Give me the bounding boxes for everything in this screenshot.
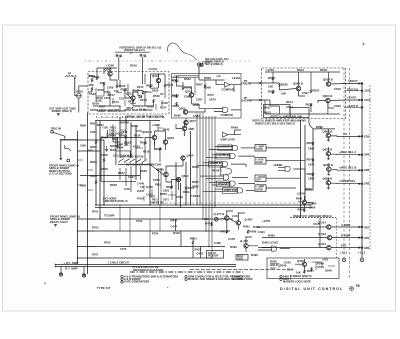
svg-text:R466: R466 [298,208,305,212]
svg-text:B501: B501 [76,90,83,94]
svg-text:R655: R655 [166,185,173,189]
and gate G5 [224,175,229,180]
node: dashed separator with text [290,217,336,219]
svg-text:DELAY: DELAY [208,252,216,255]
ground: rail gnd 2 [360,258,364,262]
svg-text:R661: R661 [316,125,323,129]
resistor R593 [279,83,281,87]
resistor R478 [226,230,228,234]
svg-text:R686: R686 [307,172,314,176]
transistor Q577 [184,120,188,124]
wire: bus y207.5 [95,207,312,209]
wire: -RT sweep out y266.5 [56,266,237,268]
node: bus area labels [92,210,99,214]
svg-text:+225V: +225V [297,192,305,196]
svg-text:R641: R641 [140,141,147,145]
wire: box2 top rail [172,78,206,105]
svg-text:R493: R493 [230,245,237,249]
wire: G1 output [241,147,255,149]
transistor Q497 [244,244,248,248]
wire: G5 output [232,176,248,178]
svg-text:R648: R648 [231,126,238,130]
wire: trig diagonal [53,132,77,139]
wire: right rail x362 [361,83,363,258]
wire: bus y231 [78,230,231,232]
svg-text:GATE: GATE [256,148,263,151]
node: sweep mag switch arrows [119,159,147,163]
svg-text:R581: R581 [173,104,180,108]
wire: Q624 output GATE [330,99,360,101]
resistor R565 [176,94,178,98]
wire: input arrow upper [248,82,262,84]
wire: box2 internal rails [172,80,215,109]
node: junction dot [60,139,61,140]
svg-text:Q-534: Q-534 [318,242,326,246]
svg-text:D549: D549 [325,269,332,273]
svg-text:+225V: +225V [266,68,274,72]
node: right upper extra labels [308,147,315,151]
svg-text:+225V: +225V [106,64,114,68]
svg-text:R447: R447 [171,219,178,223]
svg-text:+NORM SEL: +NORM SEL [339,179,356,183]
node: bottom mid cable labels [108,262,130,265]
svg-text:R526: R526 [153,94,160,98]
svg-text:+225: +225 [173,75,180,79]
wire: cal horizontal y150.9 [116,151,130,158]
wire: box3 drop to logic [309,119,313,129]
svg-text:+12.2: +12.2 [358,251,366,255]
ground: note gnd [54,225,57,227]
svg-text:C616: C616 [334,87,341,91]
svg-text:+GATE: +GATE [347,96,356,100]
wire: lamp feed [75,86,88,96]
svg-text:R496: R496 [251,253,258,257]
wire: box1 extra verticals [110,74,165,106]
wire: Q524 output B SWP [332,237,361,239]
svg-text:R451: R451 [190,237,197,241]
node: sawtooth label [107,132,124,135]
wire: TP570 stem [198,66,200,74]
wire: Q513 base net [125,90,143,106]
node: labels in box3 [286,100,293,104]
resistor R504 [103,82,105,86]
transistor Q653 [163,140,167,144]
wire: horiz y120 [95,120,160,122]
transistor Q654 [176,177,180,181]
wire: comparator output [230,85,241,92]
svg-text:LEVEL: LEVEL [232,76,241,80]
svg-text:B SWP: B SWP [341,233,350,237]
svg-text:3R2: 3R2 [364,225,370,229]
node: legend row 2 right [185,277,243,281]
node: mid-left extra labels [110,144,119,148]
svg-text:OFF: OFF [270,267,276,271]
svg-text:+GATE: +GATE [148,67,157,71]
node: trig connector [51,131,54,134]
wire: switch common dashed bus [84,60,252,62]
svg-text:R517: R517 [108,93,115,97]
svg-text:C659: C659 [176,195,183,199]
transistor Q645 [164,172,168,176]
svg-text:R565: R565 [172,94,179,98]
wire: logic bus x212 [211,116,213,258]
resistor R581 [176,102,178,106]
node: Q464 aux labels [296,197,303,201]
svg-text:Q-645: Q-645 [156,168,164,172]
wire: supply stub [107,130,109,138]
node: front panel row label [90,109,153,112]
svg-text:J102: J102 [364,89,371,93]
ground: output gnd 2 [82,274,85,277]
svg-text:RESET: RESET [212,169,222,173]
node: mid labels between buses [136,219,143,223]
svg-text:(SWEEP SELECT): (SWEEP SELECT) [124,49,145,52]
node: box2 mid labels [196,83,203,87]
wire: G3 output [231,164,246,167]
transistor Q664B [326,133,330,137]
svg-text:Q674 B: Q674 B [323,148,333,152]
wire: bus y258 [78,257,214,259]
svg-text:R696: R696 [305,187,312,191]
transistor Q487 [236,221,240,225]
resistor R528 [153,99,155,103]
wire: Q643 nets [145,131,166,150]
svg-text:Q654: Q654 [182,174,189,178]
resistor R502 [96,76,98,80]
svg-text:R495: R495 [268,234,275,238]
wire: logic bus x209 [208,116,210,247]
svg-text:Q-497: Q-497 [240,239,248,243]
node: buffer out label [231,126,238,130]
wire: extra verticals x158-161 [159,168,162,205]
transistor Q674B [326,152,330,156]
test point TP2 pair right [140,54,142,56]
node: legend right col extension [232,274,250,278]
svg-text:R596: R596 [80,125,86,128]
svg-text:C671: C671 [163,199,169,202]
wire: box4 internal wires [270,262,335,270]
resistor R506 [116,84,118,88]
wire: vertical x77.5 [77,131,79,265]
wire: logic bus x206 [205,116,207,231]
svg-text:R633: R633 [131,124,138,128]
svg-text:C655: C655 [153,178,160,182]
wire: label stack stubs [144,185,152,201]
resistor R503 [91,78,93,82]
resistor R655 [171,185,173,189]
svg-text:10 11 12 13 14 15: 10 11 12 13 14 15 [113,155,133,158]
svg-text:2.2K: 2.2K [232,214,239,218]
wire: vertical x176 [175,162,177,205]
node: legend row 2 left [121,277,141,281]
svg-text:+GATE A: +GATE A [65,74,77,78]
svg-text:1 CABLE CIRCUIT: 1 CABLE CIRCUIT [108,262,130,265]
wire: sweep line from gates to right col [305,169,313,190]
wire: top-right corner stub [345,83,347,85]
node: gate label boxes [218,145,232,151]
node: holdoff note [205,58,229,61]
wire: right rail x344 dashed [343,68,345,258]
node: right terminal tags lower [364,225,370,229]
svg-text:Q513: Q513 [126,92,133,96]
sweep generator box (dashed) [88,72,169,115]
svg-text:R645: R645 [155,147,162,151]
node: swp cal label [117,143,130,147]
resistor R597 [310,89,312,93]
resistor R522 [150,84,152,88]
svg-text:TO A & B SWP CKT BD: TO A & B SWP CKT BD [132,266,159,269]
svg-text:MAG: MAG [110,148,117,152]
wire: switch row feed [118,165,163,175]
wire: vertical x136 [135,125,137,180]
node: box4 labels right [317,262,324,266]
node: box3 bottom rail [265,113,340,115]
resistor R531 [91,87,93,91]
svg-text:R561: R561 [172,79,179,83]
transistor Q614 [326,82,330,86]
svg-text:R608: R608 [90,160,97,164]
resistor R676 [312,158,314,162]
svg-text:COMPAR: COMPAR [222,88,234,92]
resistor R561 [176,79,178,83]
node: switch contact dots [118,161,142,163]
resistor R524 [164,84,166,88]
wire: horiz y175 [80,174,140,176]
wire: vertical x100 [99,121,101,219]
svg-text:NORM: NORM [120,121,129,125]
transistor Q663 [182,126,186,130]
svg-text:R676: R676 [307,158,314,162]
node: box3 extra labels [266,68,274,72]
sweep holdoff box [267,258,339,279]
wire: box1 lower nets [93,92,154,110]
wire: Q694 emitter [327,185,330,190]
svg-text:Q593 B: Q593 B [293,82,303,86]
resistor R595 [272,90,274,94]
svg-text:R488: R488 [250,230,257,234]
svg-text:Q653: Q653 [167,136,174,140]
svg-text:D492 LEVEL: D492 LEVEL [262,241,279,245]
wire: output box feeds [266,148,305,188]
wire: vertical x305 [304,125,306,202]
svg-text:R595: R595 [268,90,275,94]
ground: under ext label [57,114,60,116]
transistor Q477 [225,216,229,220]
wire: vertical x131 [130,122,132,158]
svg-text:OFF: OFF [256,179,261,182]
node: feed label [316,125,323,129]
node: left terminal dots [55,264,57,266]
resistor R548 [311,267,313,271]
svg-text:Q-487: Q-487 [245,218,253,222]
svg-text:EXT: EXT [341,243,347,247]
svg-text:C447: C447 [171,225,178,229]
svg-text:+MAG SEL B: +MAG SEL B [339,166,356,170]
wire: box1 left stubs [88,72,142,93]
wire: rail crossing ticks upper [344,91,362,108]
resistor R608 [95,180,97,184]
node: box1 extra labels [106,64,114,68]
wire: logic bus x215 [214,116,216,196]
node: bottom row labels mid-left [152,199,158,202]
node: circled contact [67,159,70,162]
svg-text:R614: R614 [286,100,293,104]
wire: Q674 emitter [327,156,330,160]
wire: vertical x186 [185,162,187,205]
node: right rail terminal circles 2 [361,90,363,109]
resistor R514 [142,91,144,95]
wire: Q624 base [262,100,335,112]
svg-text:R639: R639 [140,169,147,173]
wire: vertical x180.5 [180,183,182,208]
svg-text:R667: R667 [192,180,199,184]
wire: cal vertical x115.9 [115,137,117,165]
wire: comparator input nets [177,74,225,93]
test point TP570 [197,63,200,66]
wire: Q503 emitter [104,76,117,92]
svg-text:R637: R637 [118,171,125,175]
node: right bus labels [171,219,178,223]
wire: bracket under label [115,52,150,54]
wire: bus vertical links [120,205,160,258]
wire: Q503 collector [97,68,117,76]
node: gate output box 4 [255,185,266,192]
svg-text:VERTICAL (SWEEP) AMPLIFIER UN: VERTICAL (SWEEP) AMPLIFIER UNBLANKING [252,119,306,122]
svg-text:C532: C532 [89,92,96,96]
svg-text:Q583: Q583 [179,107,186,111]
svg-text:R449: R449 [173,231,180,235]
svg-text:Q-524: Q-524 [318,232,326,236]
transistor Q643 [152,135,156,139]
svg-text:R547: R547 [307,269,314,273]
node: HORIZONTAL DISPLAY switch label [120,47,162,50]
transistor Q523 [156,78,160,82]
svg-text:2R4: 2R4 [364,153,370,157]
wire: coax cable squiggle to holdoff [168,43,197,60]
wire: TP1 drop [118,57,120,72]
resistor R657 [185,186,187,190]
and gate G7 [238,188,243,193]
svg-text:R621: R621 [306,103,313,107]
node: input label GATE [244,96,248,100]
svg-text:D608: D608 [101,167,108,171]
wire: bus tick stubs [88,219,96,258]
resistor R591 [272,77,274,81]
transistor Q684B [327,167,331,171]
wire: horiz y140 [61,139,104,141]
wire: dashed vertical x336.5 [336,218,338,258]
wire: Q464 stubs [298,201,313,205]
svg-text:+INHIB: +INHIB [273,163,282,167]
node: misc box1 labels [96,96,103,100]
svg-text:R591: R591 [268,76,275,80]
resistor R666 [312,142,314,146]
svg-text:+ R.T. SWP: + R.T. SWP [64,261,79,265]
wire: Q684 output [329,163,361,171]
svg-text:+12.2: +12.2 [340,251,348,255]
svg-text:Q624 B: Q624 B [323,94,333,98]
relay box B [290,108,309,118]
svg-text:C545: C545 [284,261,291,265]
and gate G1 [233,145,238,150]
svg-text:1 — 2 — 3 — 4 — 5 — 6 — 7 — 8: 1 — 2 — 3 — 4 — 5 — 6 — 7 — 8 — 9 — 10 —… [96,116,165,119]
node: ext trig label [50,107,76,111]
transistor Q464 [302,200,306,204]
svg-text:R638: R638 [110,183,117,187]
node: box1 labels third pass [107,86,114,90]
node: +RT SWP label [64,261,79,265]
wire: bus y205 [95,204,312,206]
wire: upper nets [113,125,142,146]
node: labels in box2 [204,76,211,80]
wire: horiz y151 [78,150,100,152]
wire: G2 output [238,155,255,157]
node: lower-mid label stack [137,182,145,186]
comparator box (solid) [172,74,242,119]
svg-text:+MAG SEL A: +MAG SEL A [339,150,356,154]
svg-text:R601: R601 [90,122,97,126]
wire: lamp drop [78,98,80,112]
node: gate output box 1 [255,145,266,152]
node: left-edge tiny labels [80,125,86,128]
svg-text:C549: C549 [317,265,324,269]
node: delay pickoff boxed label 1 [207,251,224,259]
wire: Q523 nets [151,74,166,88]
resistor R686 [312,173,314,177]
and gate G3 [223,162,228,167]
transistor Q513 [131,96,135,100]
transistor Q524 lower [327,235,331,239]
svg-text:R671: R671 [152,199,158,202]
node: box2 left rail labels [173,75,180,79]
and gate G8 [285,166,290,171]
wire: Q614 output TRIG'D [331,83,361,85]
svg-text:C583: C583 [193,114,200,118]
svg-text:C601: C601 [90,130,97,134]
wire: G8 nets [278,168,305,171]
node: ext horiz label [103,197,117,201]
node: -RT SWP label [64,267,78,271]
node: mag switch label [120,155,144,159]
svg-text:R510: R510 [130,64,137,68]
wire: box1 stubs third pass [108,89,162,110]
wire: left-edge stubs [78,140,94,190]
svg-text:VERTICAL AMPL UNBLANK: VERTICAL AMPL UNBLANK [270,116,303,119]
node: mid-bottom junction dots [226,210,258,237]
svg-text:R569: R569 [204,76,211,80]
wire: vertical x96 [95,121,97,205]
svg-text:SWP MAG SEC A (TIMING SW): SWP MAG SEC A (TIMING SW) [126,163,161,166]
transistor Q534 lower [327,245,331,249]
node: legend row 1 left [121,274,179,278]
wire: right rail x370 dashed [369,85,371,250]
svg-text:1R2: 1R2 [364,134,370,138]
resistor R512 [124,88,126,92]
node: terminal circles right rail [361,83,363,249]
resistor R488 [247,230,249,234]
svg-text:+225V: +225V [262,219,270,223]
node: bus junction dots left rail [77,204,213,265]
svg-text:VERT: VERT [237,258,244,261]
svg-text:Q664: Q664 [187,154,194,158]
relay box A [264,105,291,118]
wire: mid-left extra wires [120,141,160,192]
wire: sawtooth rail y137.4 [101,136,144,138]
wire: dashed net y203 [152,202,310,204]
svg-text:R612: R612 [297,68,304,72]
node: mult vert boxed label 2 [236,255,248,261]
node: box3 top rail [265,71,340,73]
